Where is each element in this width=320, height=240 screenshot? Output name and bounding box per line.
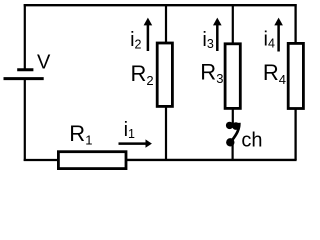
wire R4 right branch upper (294, 4, 296, 44)
wire bottom bus right segment (126, 159, 297, 161)
current arrow i3 (216, 25, 219, 52)
switch ch top contact dot (226, 122, 233, 129)
wire R2 branch lower (165, 107, 167, 159)
resistor R4 (288, 43, 303, 108)
resistor R2 (157, 43, 172, 106)
battery V short plate (17, 68, 33, 71)
wire R2 branch upper (165, 4, 167, 43)
svg-text:R3: R3 (200, 60, 223, 87)
wire R3 branch below box to switch (232, 108, 234, 124)
svg-text:i4: i4 (264, 28, 275, 50)
svg-text:R2: R2 (131, 61, 154, 88)
resistor R3 (225, 44, 240, 109)
wire top bus (24, 4, 297, 6)
wire left branch upper (24, 4, 26, 69)
svg-text:i3: i3 (202, 29, 213, 51)
switch ch bottom contact dot (226, 138, 234, 146)
svg-text:i2: i2 (130, 29, 141, 51)
current arrow i2 (147, 25, 150, 52)
wire R3 branch upper (232, 4, 234, 44)
svg-text:R1: R1 (69, 121, 92, 148)
wire left branch lower (24, 79, 26, 161)
svg-text:i1: i1 (124, 119, 135, 141)
battery V long plate (4, 77, 44, 80)
wire R3 branch below switch (232, 144, 234, 159)
svg-text:R4: R4 (263, 60, 286, 87)
wire bottom bus left segment (24, 159, 59, 161)
svg-text:V: V (37, 51, 51, 73)
current arrow i1 (119, 142, 147, 145)
current arrow i4 (277, 25, 280, 52)
svg-text:ch: ch (241, 129, 262, 151)
resistor R1 (58, 152, 126, 169)
wire R4 right branch lower (294, 108, 296, 160)
switch ch blade (232, 123, 239, 140)
